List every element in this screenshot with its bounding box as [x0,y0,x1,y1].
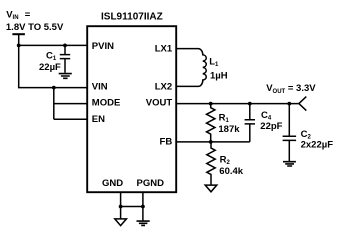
svg-text:2x22µF: 2x22µF [301,140,334,151]
resistor R2 [207,142,215,185]
svg-text:PGND: PGND [137,178,165,189]
input terminal VIN [12,33,25,35]
wire input down to VIN [19,45,87,87]
svg-text:22µF: 22µF [39,62,61,73]
wire VIN tap down to MODE and EN [54,88,87,120]
svg-text:PVIN: PVIN [92,41,114,52]
svg-text:ISL91107IIAZ: ISL91107IIAZ [101,12,163,23]
svg-text:60.4k: 60.4k [219,166,243,177]
node: junction input/PVIN [17,44,21,48]
svg-text:EN: EN [92,114,105,125]
svg-text:VIN: VIN [92,81,108,92]
wire FB [177,141,250,143]
resistor R1 [207,104,215,142]
wire input to PVIN [19,44,87,46]
ground under C2 [283,162,296,166]
wire GND pin down [120,192,122,219]
ground under C1 [59,74,72,79]
svg-text:FB: FB [160,137,173,148]
svg-text:1µH: 1µH [210,70,228,81]
svg-text:MODE: MODE [92,97,121,108]
svg-text:GND: GND [102,178,123,189]
capacitor C4 [249,104,251,142]
wire LX1 and inductor L1 [177,49,207,87]
ground triangle under R2 [205,185,217,192]
wire PGND pin down [142,192,144,221]
ground under PGND [137,221,150,225]
node: junction VOUT/C2 [287,102,291,106]
wire GND-PGND connector [121,206,143,208]
svg-text:1.8V TO 5.5V: 1.8V TO 5.5V [6,22,64,33]
node: junction VIN tap [52,86,56,90]
ground triangle under GND [115,219,127,226]
capacitor C1 [64,45,66,72]
node: junction VOUT/R1 [209,102,213,106]
svg-text:LX2: LX2 [155,82,172,93]
output arrow terminal [299,97,306,111]
node: junction PGND wire [141,205,145,209]
svg-text:LX1: LX1 [155,43,173,54]
svg-text:22pF: 22pF [260,121,282,132]
wire VOUT [177,103,299,105]
node: junction C1/PVIN [63,44,67,48]
node: junction FB/R1/R2 [209,140,213,144]
svg-text:187k: 187k [218,124,240,135]
capacitor C2 [288,104,290,161]
svg-text:VOUT: VOUT [146,98,173,109]
node: junction GND wire [119,205,123,209]
node: junction VOUT/C4 [248,102,252,106]
IC U1 ISL91107IIAZ box [87,26,176,192]
